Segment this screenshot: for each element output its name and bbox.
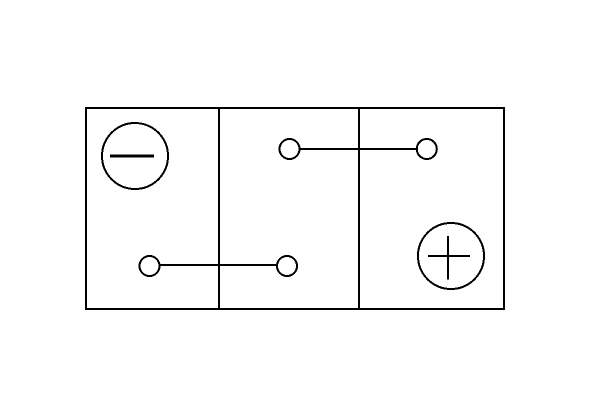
terminal post, cell 2 bottom bbox=[277, 256, 297, 276]
minus sign bbox=[110, 155, 154, 158]
terminal post, cell 3 top bbox=[417, 139, 437, 159]
terminal post, cell 2 top bbox=[280, 139, 300, 159]
cell divider wall 2 bbox=[358, 108, 360, 309]
negative terminal circle bbox=[102, 123, 168, 189]
battery case outline bbox=[86, 108, 504, 309]
cell divider wall 1 bbox=[218, 108, 220, 309]
terminal post, cell 1 bottom bbox=[140, 256, 160, 276]
plus sign bbox=[428, 236, 470, 280]
positive terminal circle bbox=[418, 223, 484, 289]
wire: top cell link bbox=[300, 148, 416, 150]
wire: bottom cell link bbox=[160, 264, 277, 266]
